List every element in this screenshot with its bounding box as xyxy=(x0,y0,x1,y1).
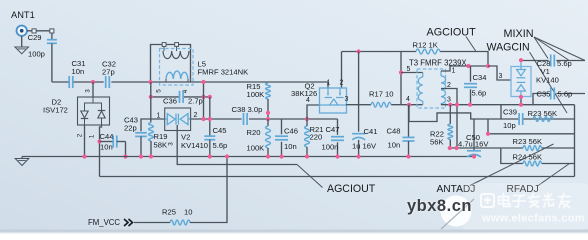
svg-text:C45: C45 xyxy=(213,126,227,135)
junction C50 ground xyxy=(472,154,476,158)
junction C34 top xyxy=(466,64,470,68)
wire V1 top to C28 line xyxy=(521,61,549,63)
svg-text:2.7p: 2.7p xyxy=(188,96,203,105)
wire V1 bottom xyxy=(520,97,522,105)
junction R22 bottom xyxy=(448,146,452,150)
junction C43 ground xyxy=(139,154,143,158)
capacitor C39 xyxy=(518,113,520,125)
svg-text:KV1410: KV1410 xyxy=(181,141,208,150)
wire R23 lower line xyxy=(451,147,524,149)
wire C50 feed xyxy=(473,119,475,151)
junction C44 to ground xyxy=(123,154,127,158)
pointer ANTADJ xyxy=(470,144,554,186)
pin square on ANT1 output xyxy=(32,29,36,33)
svg-text:3: 3 xyxy=(447,97,451,104)
capacitor C28 xyxy=(550,55,552,67)
junction R21 ground xyxy=(305,154,309,158)
junction V1 bottom line xyxy=(519,103,523,107)
wire tank tap down xyxy=(203,82,205,119)
resistor R23 (lower) xyxy=(523,146,542,151)
svg-text:www.elecfans.com: www.elecfans.com xyxy=(481,213,585,225)
junction R22 top xyxy=(448,103,452,107)
diode pair D2 ISV172 xyxy=(78,97,110,125)
svg-text:3: 3 xyxy=(499,73,503,80)
wire R24 line xyxy=(501,148,523,164)
svg-text:R23 56K: R23 56K xyxy=(513,137,543,146)
long rail from D2 pin1 xyxy=(100,176,575,178)
wire D2 pin3 to main line xyxy=(92,82,94,97)
svg-text:1: 1 xyxy=(89,134,96,138)
pin square L5 top b xyxy=(175,43,179,47)
dashed box T3 xyxy=(417,69,446,108)
capacitor C31 xyxy=(68,76,70,88)
svg-text:WAGCIN: WAGCIN xyxy=(487,42,530,54)
capacitor C36 xyxy=(179,91,181,103)
bus wire right edge xyxy=(574,105,576,177)
inductor L5 secondary winding xyxy=(166,71,188,79)
junction T3 pin2 drop bottom xyxy=(454,146,458,150)
bottom border band xyxy=(0,230,588,233)
svg-text:10n: 10n xyxy=(388,141,401,150)
junction T3 pin5 xyxy=(399,70,403,74)
svg-text:C44: C44 xyxy=(100,132,114,141)
svg-text:10n: 10n xyxy=(284,142,297,151)
resistor R24 xyxy=(523,161,542,166)
svg-text:5: 5 xyxy=(407,66,411,73)
transformer T3 windings xyxy=(418,77,423,101)
wire varactor bias line xyxy=(191,118,242,120)
svg-text:R12 1K: R12 1K xyxy=(413,41,438,50)
svg-text:FMRF 3214NK: FMRF 3214NK xyxy=(198,68,249,77)
watermark elecfans text xyxy=(499,194,571,208)
resistor R12 xyxy=(416,49,440,54)
svg-text:38K126: 38K126 xyxy=(291,89,317,98)
svg-text:3: 3 xyxy=(345,96,349,103)
svg-text:C35: C35 xyxy=(537,90,551,99)
svg-text:R23 56K: R23 56K xyxy=(528,109,558,118)
pointer MIXIN b xyxy=(534,37,569,60)
svg-text:4: 4 xyxy=(406,96,410,103)
svg-text:MIXIN: MIXIN xyxy=(504,28,534,40)
svg-text:C39: C39 xyxy=(503,108,517,117)
varactor V1 KV140 xyxy=(511,67,531,97)
svg-text:C34: C34 xyxy=(473,73,487,82)
junction R12 corner on pin1 line xyxy=(486,64,490,68)
resistor R20 xyxy=(267,119,269,126)
wire Q2 pin3 to T3 pin4 xyxy=(346,104,371,106)
junction AGC decouple tap xyxy=(357,49,361,53)
pointer line AGCIOUT (bottom) xyxy=(297,165,323,188)
watermark backdrop xyxy=(463,183,588,231)
junction C34 bottom xyxy=(468,103,472,107)
svg-text:4.7u 16V: 4.7u 16V xyxy=(458,140,489,149)
junction C36 left xyxy=(149,95,153,99)
svg-text:220: 220 xyxy=(310,133,323,142)
svg-text:100p: 100p xyxy=(28,50,45,59)
junction C36 right a xyxy=(201,95,205,99)
svg-text:1u 16V: 1u 16V xyxy=(352,142,377,151)
wire main RF line (antenna to Q2 gate1) xyxy=(52,81,69,83)
capacitor C46 xyxy=(281,119,283,134)
wire AGC tap to C41 xyxy=(358,52,360,132)
svg-text:100n: 100n xyxy=(322,143,339,152)
svg-text:4: 4 xyxy=(306,97,310,104)
junction V1 top xyxy=(519,58,523,62)
junction C48 top xyxy=(407,103,411,107)
wire gate2 AGC line xyxy=(342,51,417,53)
svg-text:C41: C41 xyxy=(364,127,378,136)
wire T3 pin5 riser xyxy=(400,52,402,105)
watermark mouse icon xyxy=(441,196,472,227)
ground rail xyxy=(22,156,474,158)
svg-text:2: 2 xyxy=(194,112,198,119)
capacitor C34 xyxy=(470,66,472,82)
wire tank left leg down to R19 xyxy=(150,82,152,123)
svg-text:10p: 10p xyxy=(503,121,516,130)
junction C46 ground xyxy=(279,154,283,158)
pointer MIXIN a xyxy=(534,37,548,59)
junction mid branch xyxy=(486,132,490,136)
wire C36 bridge xyxy=(151,96,180,98)
svg-text:2: 2 xyxy=(77,133,84,137)
watermark elecfans icon xyxy=(481,194,494,207)
svg-text:C36: C36 xyxy=(163,96,177,105)
wire R25 to supply rail xyxy=(190,157,227,223)
svg-text:2: 2 xyxy=(447,82,451,89)
svg-text:R17 10: R17 10 xyxy=(369,90,394,99)
pointer MIXIN c xyxy=(534,37,585,61)
svg-text:AGCIOUT: AGCIOUT xyxy=(327,183,376,195)
capacitor C32 xyxy=(105,76,107,88)
wire T3 pin1 xyxy=(441,66,488,71)
resistor R25 xyxy=(170,220,190,225)
wire T3 pin3 line xyxy=(441,104,575,106)
capacitor C48 xyxy=(408,105,410,138)
chevrons FM_VCC port xyxy=(124,219,133,226)
junction V1 bottom box xyxy=(519,95,523,99)
junction C45 ground xyxy=(208,154,212,158)
svg-text:R20: R20 xyxy=(247,128,261,137)
capacitor C50 electrolytic xyxy=(467,150,481,152)
svg-text:5.6p: 5.6p xyxy=(213,141,228,150)
ground at ANT1 xyxy=(21,36,23,47)
wire D2 pin1 down to rail xyxy=(100,125,102,177)
resistor R15 xyxy=(266,83,271,99)
wire tank top loop xyxy=(151,45,191,83)
capacitor C44 xyxy=(100,141,114,143)
wire T3 pin5 stub xyxy=(401,72,423,74)
transistor Q2 38K126 xyxy=(320,88,347,113)
svg-text:5.6p: 5.6p xyxy=(472,89,487,98)
wire ANT1 to C29 node xyxy=(27,30,50,32)
resistor R21 xyxy=(305,126,310,147)
svg-text:R25: R25 xyxy=(162,208,176,217)
junction C48 ground xyxy=(406,154,410,158)
wire C39 line stepped xyxy=(409,105,519,122)
svg-text:ANT1: ANT1 xyxy=(11,10,35,20)
junction tank tap bottom xyxy=(201,117,205,121)
varactor V2 KV1410 xyxy=(165,108,191,131)
wire T3 pin2 center tap xyxy=(441,89,457,149)
junction C41 ground xyxy=(357,154,361,158)
junction tank tap top xyxy=(201,80,205,84)
svg-text:1: 1 xyxy=(452,68,456,75)
svg-text:C29: C29 xyxy=(28,33,42,42)
junction R19 ground xyxy=(149,154,153,158)
junction R20 ground xyxy=(266,154,270,158)
junction on main line at D2 tap xyxy=(91,80,95,84)
wire FM_VCC to R25 xyxy=(134,222,170,224)
resistor R17 xyxy=(371,102,391,107)
capacitor C47 xyxy=(337,119,339,135)
antenna connector ANT1 xyxy=(17,26,27,36)
svg-text:C46: C46 xyxy=(284,127,298,136)
svg-text:ISV172: ISV172 xyxy=(43,106,68,115)
svg-text:FM_VCC: FM_VCC xyxy=(88,218,120,227)
resistor R19 xyxy=(149,123,154,142)
capacitor C45 xyxy=(209,97,211,136)
capacitor C29 xyxy=(51,33,53,40)
wire mid branch xyxy=(488,119,575,134)
svg-text:58K: 58K xyxy=(154,141,168,150)
junction tank left on main line xyxy=(148,80,152,84)
svg-text:3: 3 xyxy=(168,142,175,146)
junction C36 right b xyxy=(208,95,212,99)
svg-text:22p: 22p xyxy=(124,124,137,133)
wire V2 center tap to AGCIOUT rail xyxy=(177,125,297,165)
wire C39 line feed xyxy=(500,105,502,120)
inductor L5 primary winding xyxy=(163,46,165,51)
svg-text:10n: 10n xyxy=(100,143,113,152)
wire T3 pin1 to V1 pin3 xyxy=(488,66,511,80)
svg-text:KV140: KV140 xyxy=(536,76,559,85)
capacitor C35 xyxy=(550,88,552,100)
svg-text:10n: 10n xyxy=(72,67,85,76)
svg-text:1: 1 xyxy=(327,80,331,87)
capacitor C38 xyxy=(243,113,245,125)
svg-text:10: 10 xyxy=(184,208,192,217)
svg-text:56K: 56K xyxy=(430,138,444,147)
svg-text:5: 5 xyxy=(156,89,163,93)
svg-text:AGCIOUT: AGCIOUT xyxy=(427,27,477,39)
junction D2 pin1 / C44 xyxy=(97,139,101,143)
dashed box L5 xyxy=(160,49,194,86)
svg-text:2: 2 xyxy=(340,80,344,87)
svg-text:ybx8.cn: ybx8.cn xyxy=(407,197,472,215)
junction C47 ground xyxy=(335,154,339,158)
capacitor C43 xyxy=(135,132,147,134)
pin square L5 top a xyxy=(162,43,166,47)
wire Q2 gate1 from main line xyxy=(327,82,329,88)
resistor R22 xyxy=(449,105,451,124)
pointer RFADJ xyxy=(538,164,570,187)
svg-text:5.6p: 5.6p xyxy=(558,90,573,99)
svg-text:C38 3.0p: C38 3.0p xyxy=(232,105,263,114)
junction Q2 pin4 node xyxy=(305,117,309,121)
svg-text:C48: C48 xyxy=(387,127,401,136)
junction D2 pin2 to ground xyxy=(82,154,86,158)
junction R25 riser at rail xyxy=(225,154,229,158)
wire D2 pin2 to ground rail xyxy=(84,125,86,157)
junction C45 top xyxy=(208,117,212,121)
junction R15 R20 C38 xyxy=(266,117,270,121)
svg-text:27p: 27p xyxy=(102,68,115,77)
ground symbol left xyxy=(21,157,23,159)
svg-text:5.6p: 5.6p xyxy=(557,59,572,68)
wire Q2 gate2 riser xyxy=(341,52,343,89)
capacitor C41 electrolytic xyxy=(352,133,365,135)
svg-text:3: 3 xyxy=(85,89,92,93)
resistor R23 (upper) xyxy=(533,117,553,122)
svg-text:100K: 100K xyxy=(247,90,265,99)
wire C35 branch xyxy=(533,94,549,105)
svg-text:100K: 100K xyxy=(247,144,265,153)
pointer WAGCIN xyxy=(530,52,568,113)
pin square at C29 top xyxy=(50,29,54,33)
junction T3 pin2 node xyxy=(455,103,459,107)
pointer AGCIOUT top xyxy=(466,37,476,52)
wire V2 pin1 branch xyxy=(141,119,165,131)
wire Q2 pin4 xyxy=(307,105,320,119)
